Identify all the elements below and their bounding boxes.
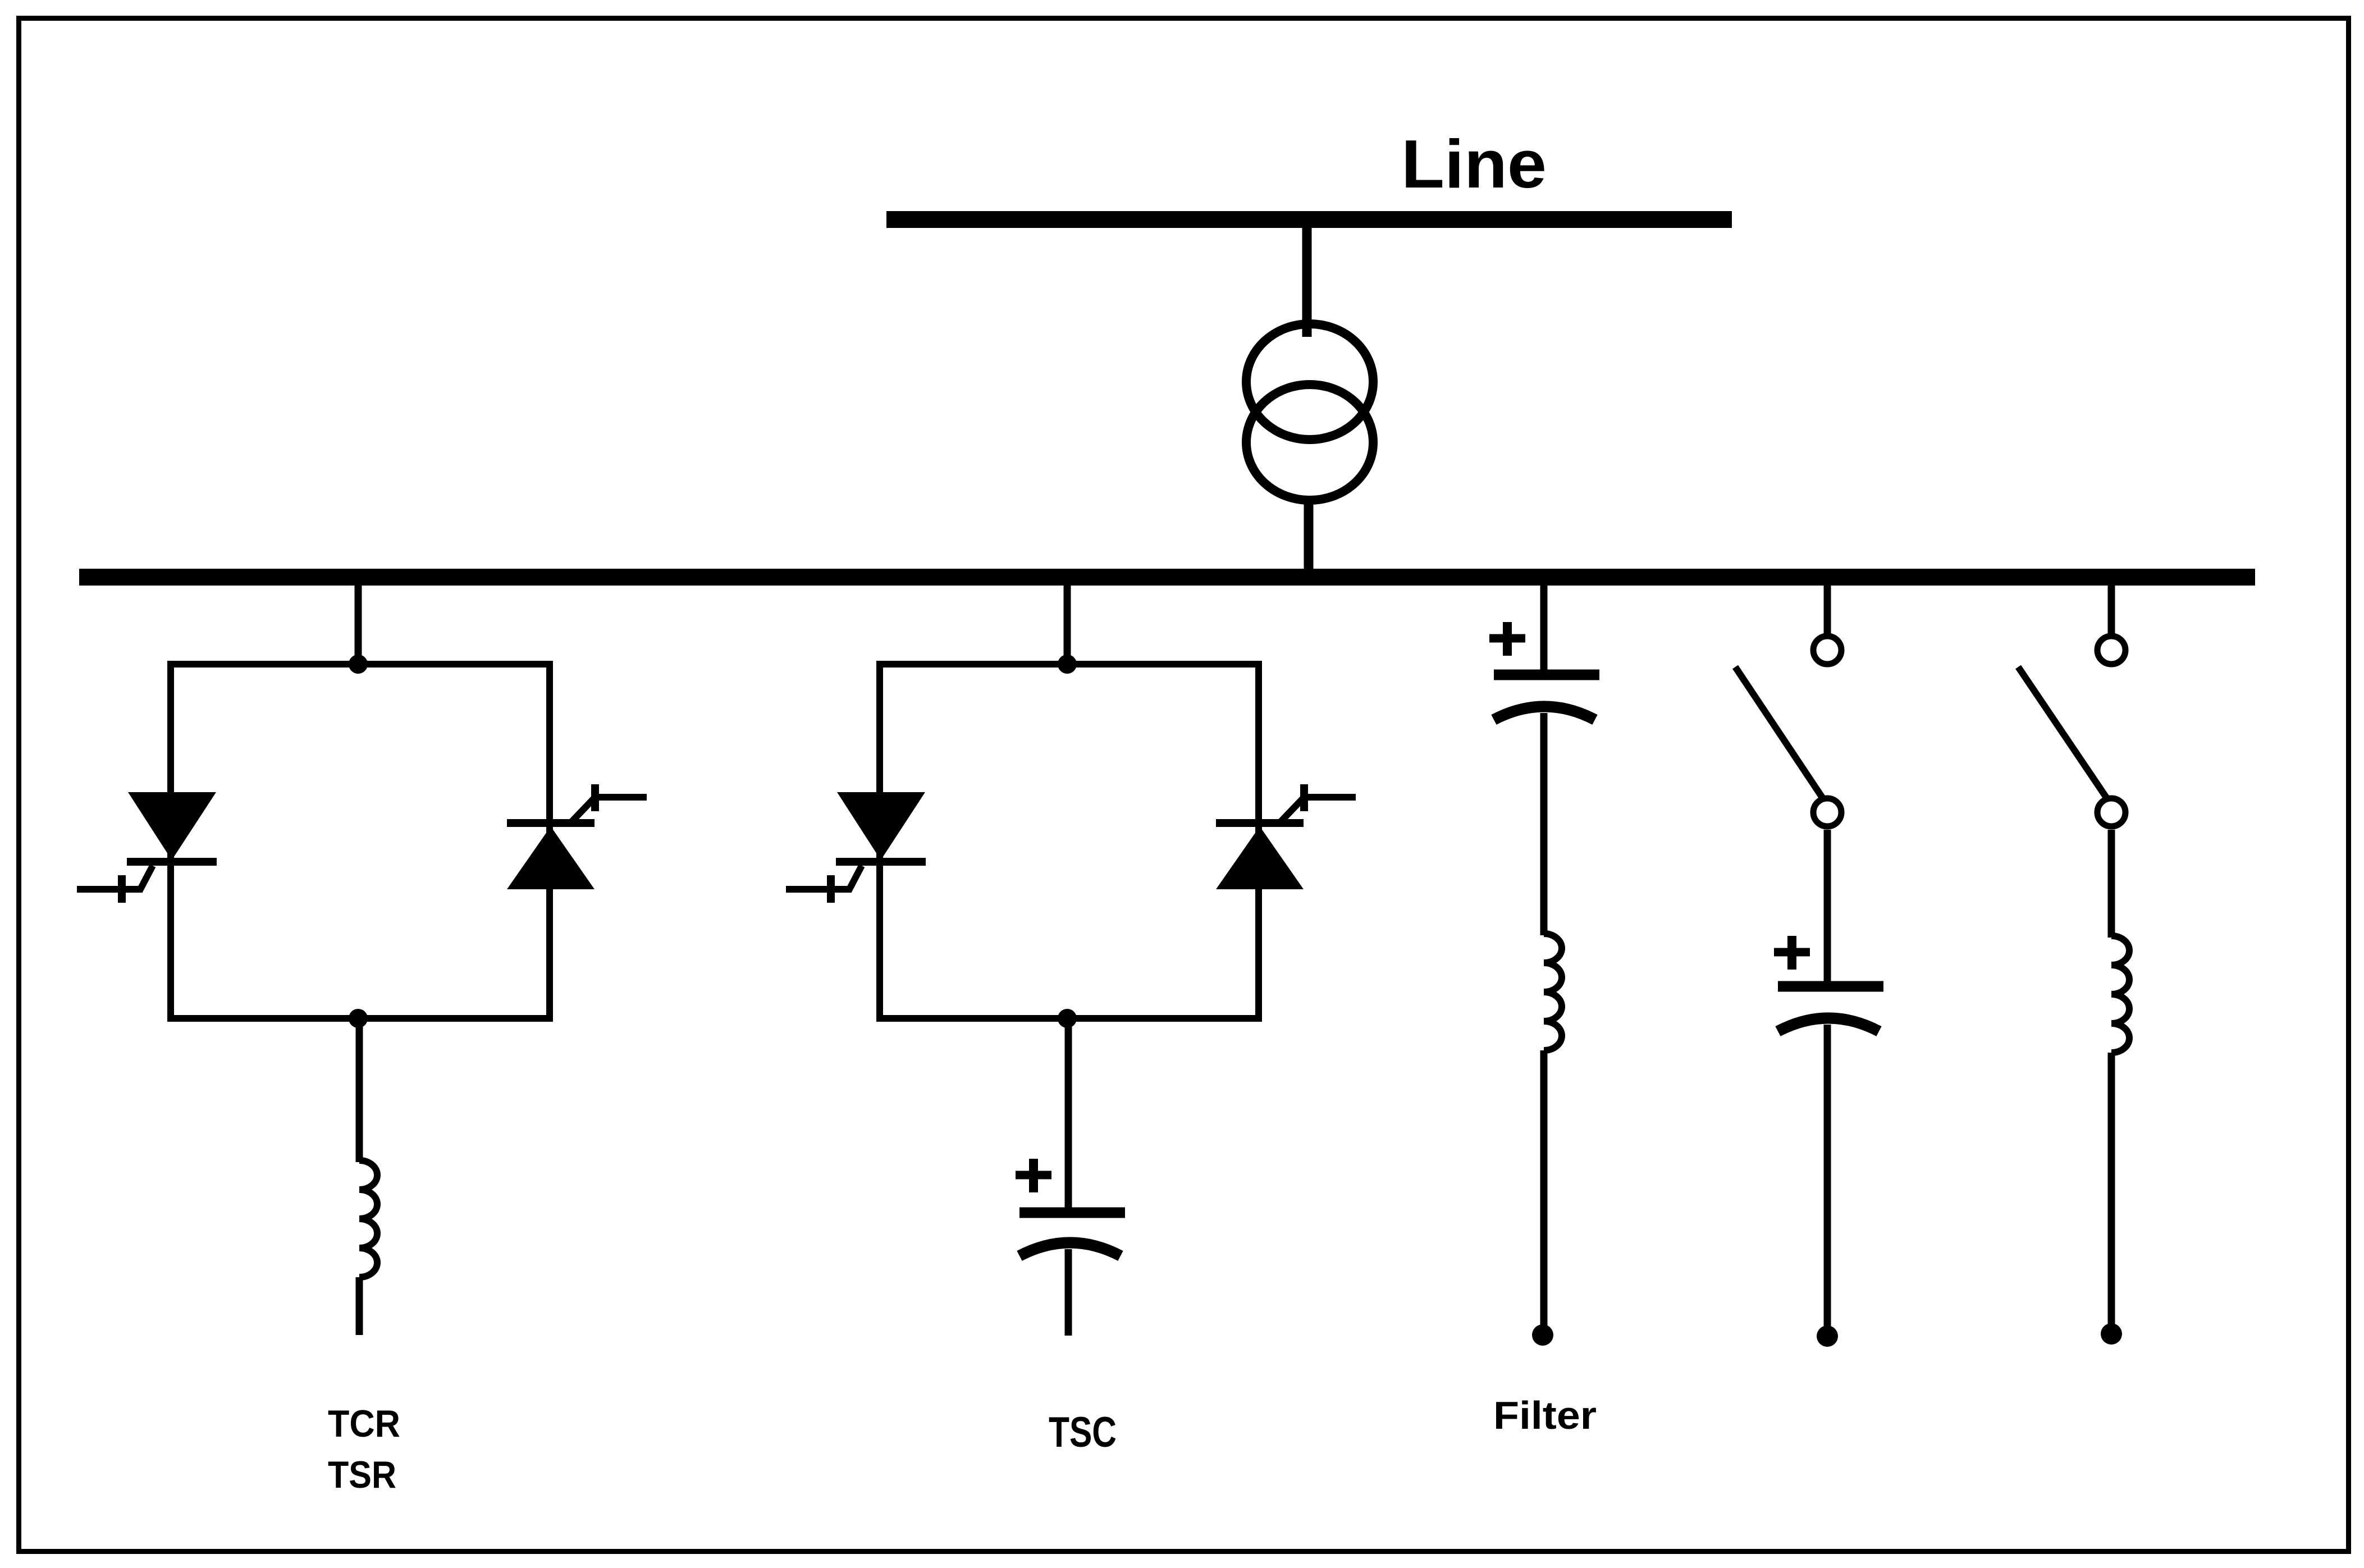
- wire filter capacitor to reactor: [1540, 713, 1548, 935]
- node TCR top junction: [349, 655, 368, 674]
- thyristor TCR left (down-pointing): [77, 792, 217, 903]
- wire line-bus to transformer: [1302, 225, 1312, 337]
- wire transformer to main bus: [1304, 502, 1314, 577]
- wire TSC loop left: [876, 661, 883, 1022]
- wire TCR node to reactor: [356, 1018, 363, 1162]
- wire SW2 to reactor: [2108, 830, 2115, 938]
- wire main bus to TCR node: [355, 584, 362, 668]
- wire switched capacitor tail: [1824, 1025, 1831, 1326]
- node TSC top junction: [1058, 655, 1077, 674]
- wire TSC loop top: [880, 661, 1259, 668]
- transformer T1: [1246, 324, 1373, 500]
- capacitor Filter: [1489, 622, 1599, 720]
- inductor Filter reactor: [1544, 934, 1562, 1050]
- node filter terminal dot: [1532, 1324, 1553, 1346]
- node switched reactor terminal dot: [2101, 1323, 2122, 1345]
- svg-text:TSC: TSC: [1049, 1409, 1117, 1456]
- switch SW1 bottom contact: [1813, 798, 1841, 826]
- node TSC bottom junction: [1058, 1009, 1077, 1028]
- wire TCR loop left: [167, 661, 174, 1022]
- capacitor switched branch: [1774, 936, 1883, 1031]
- switch SW1 blade: [1735, 667, 1823, 798]
- switch SW1 top contact: [1813, 636, 1841, 664]
- switch SW2 blade: [2018, 667, 2107, 798]
- bus Line (top busbar): [886, 211, 1732, 228]
- wire TSC node to capacitor: [1065, 1018, 1072, 1209]
- thyristor TSC right (up-pointing): [1216, 784, 1356, 889]
- wire TSC loop bottom: [880, 1015, 1259, 1022]
- switch SW2 bottom contact: [2097, 798, 2125, 826]
- capacitor TSC: [1016, 1159, 1125, 1256]
- svg-text:TSR: TSR: [328, 1453, 396, 1496]
- thyristor TSC left (down-pointing): [786, 792, 926, 903]
- svg-text:TCR: TCR: [328, 1402, 400, 1445]
- wire TCR loop top: [171, 661, 550, 668]
- wire TCR loop right: [546, 661, 553, 1022]
- wire SW1 to capacitor: [1824, 830, 1831, 982]
- wire TCR loop bottom: [171, 1015, 550, 1022]
- thyristor TCR right (up-pointing): [507, 784, 647, 889]
- wire TCR reactor tail: [356, 1277, 363, 1335]
- wire main bus to switch SW2: [2108, 584, 2115, 636]
- node TCR bottom junction: [349, 1009, 368, 1028]
- wire TSC capacitor tail: [1065, 1249, 1072, 1336]
- node switched capacitor terminal dot: [1817, 1325, 1838, 1347]
- svg-text:Filter: Filter: [1493, 1393, 1597, 1437]
- inductor switched reactor: [2111, 936, 2129, 1053]
- wire filter reactor tail: [1540, 1050, 1548, 1326]
- svg-text:Line: Line: [1401, 126, 1547, 202]
- wire switched reactor tail: [2108, 1053, 2115, 1324]
- inductor TCR reactor: [359, 1160, 377, 1277]
- switch SW2 top contact: [2097, 636, 2125, 664]
- wire main bus to switch SW1: [1824, 584, 1831, 636]
- wire main bus to filter capacitor: [1540, 584, 1548, 670]
- wire main bus to TSC node: [1064, 584, 1071, 668]
- wire TSC loop right: [1255, 661, 1262, 1022]
- main busbar: [79, 569, 2255, 586]
